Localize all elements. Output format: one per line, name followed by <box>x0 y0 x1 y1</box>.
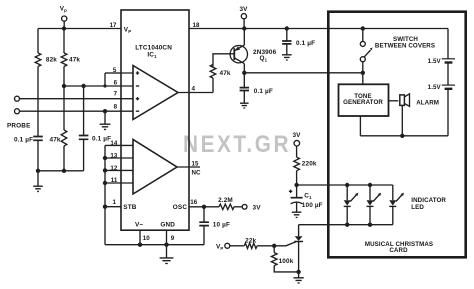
svg-text:10 µF: 10 µF <box>213 221 230 228</box>
node pins 5-6 wire <box>62 73 121 88</box>
resistor 47k lower <box>50 86 67 171</box>
svg-text:0.1 µF: 0.1 µF <box>14 137 33 144</box>
terminal Vp top-left <box>60 6 67 31</box>
svg-text:100k: 100k <box>279 258 294 265</box>
svg-text:LED: LED <box>411 204 424 211</box>
svg-text:LTC1040CN: LTC1040CN <box>135 44 172 51</box>
LED D2 <box>367 185 382 225</box>
capacitor C1 100uF <box>289 185 323 217</box>
svg-text:0.1 µF: 0.1 µF <box>296 40 315 47</box>
watermark NEXT.GR <box>183 130 291 158</box>
wire card bottom return <box>360 116 448 138</box>
svg-text:0.1 µF: 0.1 µF <box>254 88 273 95</box>
capacitor 0.1uF left <box>14 137 43 171</box>
op-amp comparator A <box>121 66 178 120</box>
ground left network <box>33 171 43 192</box>
svg-text:1: 1 <box>113 199 117 206</box>
svg-text:GENERATOR: GENERATOR <box>343 99 383 106</box>
svg-text:2N3906: 2N3906 <box>253 49 277 56</box>
svg-text:BETWEEN COVERS: BETWEEN COVERS <box>375 42 435 49</box>
svg-text:1.5V: 1.5V <box>428 84 442 91</box>
probe terminal 1 <box>15 96 122 101</box>
svg-text:GND: GND <box>160 222 175 229</box>
terminal 3V (osc) <box>242 204 261 211</box>
svg-text:22k: 22k <box>245 237 256 244</box>
svg-text:82k: 82k <box>46 57 57 64</box>
svg-text:47k: 47k <box>69 57 80 64</box>
pin number labels right <box>143 22 201 242</box>
LED D3 <box>389 185 446 225</box>
op-amp comparator B <box>121 140 200 195</box>
svg-text:3V: 3V <box>239 6 248 13</box>
svg-text:3V: 3V <box>253 204 262 211</box>
capacitor 0.1uF rail <box>282 29 315 61</box>
svg-text:STB: STB <box>123 204 136 211</box>
svg-text:CARD: CARD <box>389 247 408 254</box>
IC U1 LTC1040CN box <box>121 10 189 230</box>
wire 3V top rail <box>189 26 448 30</box>
svg-text:1.5V: 1.5V <box>428 58 442 65</box>
svg-text:47k: 47k <box>50 137 61 144</box>
pin number labels left <box>110 22 118 206</box>
battery B2 1.5V <box>428 63 455 136</box>
wire LED cathode rail <box>299 223 393 227</box>
svg-text:4: 4 <box>192 85 196 92</box>
svg-text:OSC: OSC <box>173 204 188 211</box>
switch S1 between covers <box>360 29 435 85</box>
resistor 2.2M <box>189 197 242 210</box>
svg-text:17: 17 <box>110 22 117 29</box>
svg-text:ALARM: ALARM <box>416 99 439 106</box>
resistor 82k <box>35 29 57 137</box>
svg-text:100 µF: 100 µF <box>302 202 323 209</box>
svg-text:9: 9 <box>171 235 175 242</box>
resistor 220k <box>294 157 317 185</box>
battery B1 1.5V <box>428 29 455 66</box>
terminal 3V (LED supply) <box>292 132 301 157</box>
capacitor 0.1uF middle <box>79 86 111 171</box>
ground pin 8 <box>100 109 111 129</box>
LED D1 <box>344 185 359 225</box>
wire ground rail left <box>36 169 84 173</box>
svg-text:10: 10 <box>143 235 150 242</box>
tone generator box <box>339 84 389 116</box>
svg-text:3V: 3V <box>292 132 301 139</box>
wire pin bus left of IC <box>103 145 121 244</box>
terminal 3V (top) <box>239 6 248 29</box>
SCR thyristor <box>274 225 303 272</box>
svg-text:V−: V− <box>135 222 143 229</box>
svg-text:0.1 µF: 0.1 µF <box>92 136 111 143</box>
musical christmas card box <box>328 12 465 258</box>
ground SCR cathode <box>293 270 303 283</box>
svg-text:5: 5 <box>113 67 117 74</box>
node collector junction <box>242 71 363 75</box>
capacitor 0.1uF collector <box>240 73 273 108</box>
transistor Q1 2N3906 <box>230 29 276 73</box>
wire bottom rail (V- / GND) <box>105 230 204 247</box>
svg-text:16: 16 <box>190 199 197 206</box>
capacitor 10uF <box>199 205 230 245</box>
svg-text:47k: 47k <box>220 70 231 77</box>
resistor 47k base <box>210 54 234 93</box>
ground GND pin 9 <box>160 245 174 264</box>
speaker alarm <box>389 94 440 136</box>
resistor 47k upper <box>61 29 80 87</box>
svg-text:NEXT.GR: NEXT.GR <box>183 130 291 158</box>
svg-text:NC: NC <box>192 170 201 177</box>
svg-text:6: 6 <box>114 79 118 86</box>
svg-text:220k: 220k <box>302 161 317 168</box>
resistor 100k <box>271 246 298 272</box>
svg-text:2.2M: 2.2M <box>218 197 233 204</box>
terminal Vp (strobe) <box>216 243 230 251</box>
wire Vp rail (top left) <box>38 28 121 30</box>
svg-text:PROBE: PROBE <box>7 123 31 130</box>
svg-text:18: 18 <box>193 22 200 29</box>
resistor 22k <box>230 237 277 248</box>
node LED supply <box>294 183 392 187</box>
svg-text:7: 7 <box>114 91 118 98</box>
svg-text:8: 8 <box>114 104 118 111</box>
probe terminal 2 <box>7 109 121 130</box>
wire pin 4 output <box>178 92 213 94</box>
